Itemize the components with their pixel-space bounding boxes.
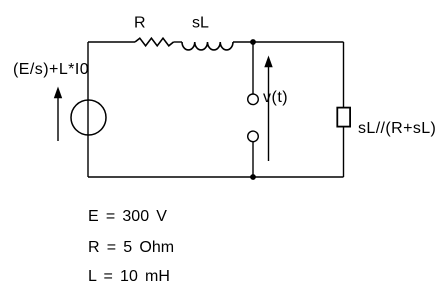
wire top-right segment: [233, 41, 344, 43]
terminal lower: [248, 131, 259, 142]
resistor R1: [135, 38, 174, 46]
svg-text:R: R: [134, 15, 146, 32]
wire right side: [343, 42, 345, 177]
node bottom junction: [250, 174, 256, 180]
source V1: [71, 100, 106, 135]
wire bottom: [88, 176, 344, 178]
wire middle upper: [252, 42, 254, 94]
svg-text:(E/s)+L*I0: (E/s)+L*I0: [13, 61, 89, 78]
wire between resistor and inductor: [174, 41, 183, 43]
svg-text:L = 10 mH: L = 10 mH: [88, 268, 170, 285]
svg-text:sL//(R+sL): sL//(R+sL): [358, 120, 436, 137]
arrow v(t): [268, 66, 270, 161]
terminal upper: [248, 94, 259, 105]
svg-text:R = 5 Ohm: R = 5 Ohm: [88, 239, 174, 256]
svg-text:E = 300 V: E = 300 V: [88, 208, 167, 225]
inductor L1: [182, 42, 233, 50]
impedance box Z1: [337, 108, 350, 127]
arrow source polarity: [57, 96, 59, 141]
wire left side: [87, 42, 89, 177]
wire middle lower: [252, 142, 254, 177]
wire top-left segment: [88, 41, 135, 43]
node top junction: [250, 39, 256, 45]
svg-text:v(t): v(t): [263, 89, 288, 106]
svg-text:sL: sL: [192, 15, 209, 32]
